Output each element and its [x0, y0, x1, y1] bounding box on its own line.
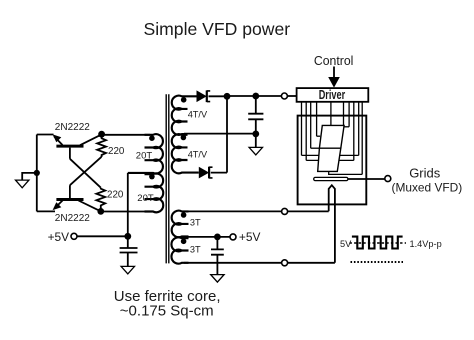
wire: terminal to filament left leg	[288, 210, 329, 212]
wire: +5V left feed	[77, 235, 128, 237]
wire: node1 to primary top lead	[102, 134, 150, 136]
svg-text:3T: 3T	[190, 218, 201, 228]
wire: top emitter wire	[37, 134, 54, 136]
svg-text:+5V: +5V	[48, 230, 70, 244]
capacitor C2 (rectifier filter)	[248, 96, 263, 134]
transformer secondary 3T (bottom)	[171, 237, 188, 263]
wire: primary center tap	[127, 173, 129, 236]
node: +5V junction	[124, 233, 131, 240]
capacitor C1 (left bypass)	[120, 236, 138, 266]
node: rectifier junction	[224, 93, 231, 100]
svg-text:220: 220	[107, 189, 124, 200]
node: top collector node	[98, 131, 105, 138]
svg-text:5V: 5V	[340, 239, 352, 249]
ground: below C3	[211, 275, 224, 283]
node: bottom collector node	[97, 208, 104, 215]
filament hairpin	[329, 185, 335, 263]
node: ground stub junction	[34, 170, 40, 176]
wire: trace upper-left	[317, 135, 321, 137]
ground: left ground symbol	[16, 180, 29, 188]
node: secondary A phase dot	[181, 97, 187, 103]
transformer secondary 4T/V (bottom)	[172, 134, 199, 173]
svg-text:Simple VFD power: Simple VFD power	[144, 19, 291, 39]
svg-text:4T/V: 4T/V	[188, 109, 208, 119]
wire: D2 to vertical	[211, 172, 227, 174]
wire: waveform centerline dashed	[350, 242, 407, 244]
node: primary w2 phase dot	[149, 174, 155, 180]
wire: secondary center tap to cap node	[184, 133, 256, 135]
svg-text:20T: 20T	[136, 151, 153, 162]
wire: 3T center tap	[184, 236, 230, 238]
wire: trace bracket outer	[302, 154, 359, 156]
wire: 3T bottom lead to terminal	[184, 262, 282, 264]
wire: rectifier vertical	[226, 96, 228, 172]
wire: control arrow	[333, 67, 335, 79]
wire: cross-coupling base2 to node1	[70, 157, 102, 185]
resistor R1 220	[97, 134, 106, 157]
VFD digit (7-segment)	[318, 125, 344, 171]
terminal: filament top circle	[282, 208, 288, 214]
wire: trace middle-left	[311, 147, 320, 149]
transformer T1 core	[166, 94, 169, 263]
svg-text:220: 220	[108, 146, 125, 157]
wire: driver pins	[302, 102, 363, 175]
node: cap top node	[252, 93, 259, 100]
diode D1	[197, 90, 211, 102]
node: secondary B phase dot	[181, 135, 187, 141]
wire: cap node to ground	[255, 134, 257, 148]
svg-text:3T: 3T	[190, 244, 201, 254]
terminal: +5V left circle	[71, 233, 77, 239]
node: cap bottom node	[252, 131, 259, 138]
wire: ground stub	[22, 173, 37, 180]
wire: cross-coupling base1 to node2	[70, 159, 101, 188]
capacitor C3 (filament tap)	[211, 237, 224, 275]
transformer secondary 3T (top)	[172, 211, 189, 237]
diode D2	[199, 167, 213, 179]
VFD tube box	[298, 116, 367, 205]
transformer primary winding 20T (top)	[128, 134, 163, 173]
svg-text:1.4Vp-p: 1.4Vp-p	[410, 239, 442, 249]
node: secondary D phase dot	[181, 239, 187, 245]
transistor Q1 2N2222 (top)	[53, 134, 102, 158]
svg-text:20T: 20T	[137, 193, 154, 204]
node: secondary C phase dot	[181, 212, 187, 218]
wire: top rail to terminal	[227, 95, 281, 97]
wire: grid bar to Grids terminal	[348, 178, 385, 180]
wire: 3T top lead to terminal	[184, 210, 282, 212]
transformer secondary 4T/V (top)	[172, 96, 197, 135]
terminal: Grids circle	[385, 176, 391, 182]
svg-text:Grids: Grids	[409, 165, 441, 180]
wire: terminal to driver	[287, 95, 296, 97]
svg-text:+5V: +5V	[239, 230, 261, 244]
transformer primary winding 20T (bottom)	[145, 173, 164, 212]
wire: node2 to primary bottom lead	[101, 211, 145, 213]
svg-text:2N2222: 2N2222	[55, 213, 90, 224]
VFD grid bar	[314, 177, 348, 180]
ground: below C1	[121, 266, 134, 274]
wire: trace bottom segment d	[329, 171, 363, 174]
svg-text:Control: Control	[314, 54, 354, 68]
transistor Q2 2N2222 (bottom)	[53, 185, 101, 211]
wire: left vertical rail	[36, 135, 38, 212]
svg-text:4T/V: 4T/V	[188, 149, 208, 159]
waveform: square wave	[352, 237, 403, 249]
wire: dotted reference line	[351, 261, 404, 263]
terminal: filament bottom circle	[282, 260, 288, 266]
node: 3T tap junction	[214, 234, 221, 241]
terminal: rail circle	[281, 93, 287, 99]
wire: terminal to filament right leg	[288, 262, 335, 264]
node: primary w1 phase dot	[149, 135, 155, 141]
terminal: +5V right circle	[230, 234, 236, 240]
resistor R2 220	[96, 188, 105, 212]
svg-text:~0.175 Sq-cm: ~0.175 Sq-cm	[120, 302, 214, 319]
ground: below C2	[249, 147, 262, 155]
wire: D1 to node	[209, 95, 228, 97]
svg-text:2N2222: 2N2222	[55, 122, 90, 133]
wire: bottom emitter wire	[37, 210, 55, 212]
driver U1 box	[297, 88, 369, 102]
wire: trace bracket inner	[306, 159, 354, 161]
svg-text:(Muxed VFD): (Muxed VFD)	[392, 181, 463, 195]
svg-text:Driver: Driver	[319, 88, 346, 102]
wire: trace upper-right	[345, 126, 350, 128]
